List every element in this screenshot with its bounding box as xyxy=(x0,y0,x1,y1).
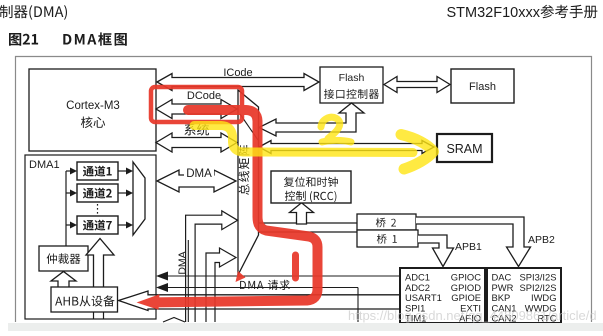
label 通道7 xyxy=(83,220,112,231)
annotation red box around DCode xyxy=(151,87,242,122)
block SRAM xyxy=(437,134,492,162)
wire Flash interface to Flash arrow xyxy=(384,77,450,93)
block channel 通道1 xyxy=(77,162,118,180)
block channel 通道7 xyxy=(77,216,118,234)
annotation yellow mark 2 xyxy=(321,117,351,142)
svg-text:Cortex-M3: Cortex-M3 xyxy=(66,100,120,112)
wire channel to mux arrow xyxy=(118,224,127,226)
block arbiter 仲裁器 xyxy=(39,246,88,271)
wire APB2 pipe and arrow xyxy=(416,217,531,267)
label 桥 1 xyxy=(377,234,397,244)
mux trapezoid xyxy=(133,162,145,235)
wire arbiter to channel arrow xyxy=(66,192,70,194)
bus matrix 总线矩阵 xyxy=(238,90,259,275)
caption 图21 xyxy=(9,33,38,46)
wire DMA request line 2 xyxy=(160,287,358,289)
svg-text:DCode: DCode xyxy=(187,90,221,102)
annotation red arrowhead at AHB slave xyxy=(137,294,160,309)
annotation yellow arrowhead at SRAM xyxy=(401,135,434,170)
block DMA1 xyxy=(25,155,156,319)
wire bus matrix to SRAM arrow xyxy=(259,141,434,154)
svg-text:STM32F10xxx: STM32F10xxx xyxy=(447,5,541,21)
wire AHB slave to mux arrow xyxy=(86,239,114,288)
wire AHB slave to arbiter arrow xyxy=(51,272,76,288)
svg-text:SRAM: SRAM xyxy=(446,142,482,156)
label DMA 请求 xyxy=(240,280,290,290)
wire DMA request line 1 xyxy=(160,275,400,277)
wire extra vertical line xyxy=(187,240,189,322)
wire APB1 pipe and arrow xyxy=(418,235,454,267)
svg-text:Flash: Flash xyxy=(469,81,496,93)
wire arrow to RCC xyxy=(290,203,314,224)
label 复位和时钟 xyxy=(284,177,338,187)
svg-text:Flash: Flash xyxy=(339,72,365,84)
svg-text:DMA: DMA xyxy=(177,251,189,274)
block RCC 复位和时钟控制 xyxy=(271,171,351,203)
header right text 参考手册 xyxy=(541,5,598,19)
svg-text:APB2: APB2 xyxy=(528,234,555,246)
wire stubs below AHB slave xyxy=(93,312,95,319)
wire arbiter to channel arrow xyxy=(66,224,70,226)
label 桥 2 xyxy=(376,218,396,228)
wire DMA master elbow arrow A into bus matrix xyxy=(186,211,238,322)
caption DMA框图 xyxy=(63,32,127,45)
wire AHB pipe to bridges xyxy=(259,222,357,224)
wire bus matrix to Flash interface elbow arrow xyxy=(259,103,364,136)
label 通道2 xyxy=(83,188,112,199)
block APB1 peripherals xyxy=(400,268,485,323)
wire DMA bus arrow xyxy=(157,170,236,192)
bottom gray bar xyxy=(8,323,603,331)
wire AHB peripherals pipe arrow into AHB slave xyxy=(119,291,401,311)
annotation yellow highlighter path to SRAM xyxy=(194,126,413,153)
wire DMA master elbow arrow B into bus matrix xyxy=(206,248,236,322)
diagram frame xyxy=(16,57,592,323)
label 接口控制器 xyxy=(324,89,379,99)
label 仲裁器 xyxy=(47,253,81,264)
block APB2 peripherals xyxy=(487,268,561,323)
block AHB slave AHB从设备 xyxy=(51,287,118,312)
block bridge 2 桥2 xyxy=(357,214,416,230)
svg-text:https://blog.csdn.net/qq_44809: https://blog.csdn.net/qq_44809861/articl… xyxy=(348,308,597,323)
label 通道1 xyxy=(83,166,112,177)
annotation red path from DCode down to AHB slave xyxy=(154,110,318,302)
block Flash interface controller xyxy=(320,67,383,103)
wire arbiter to channel arrow xyxy=(66,170,70,172)
svg-text:DMA: DMA xyxy=(186,168,212,180)
wire 系统 (system) bus arrow xyxy=(156,133,237,152)
label 核心 xyxy=(81,117,105,129)
header left text 制器(DMA) xyxy=(0,5,67,20)
label 总线矩阵 (vertical) xyxy=(239,145,250,195)
wire arbiter feed line xyxy=(65,171,67,246)
svg-text:APB1: APB1 xyxy=(455,241,482,253)
label AHB从设备 xyxy=(55,295,115,306)
label 系统 xyxy=(184,124,209,136)
label 控制 (RCC) xyxy=(285,191,337,203)
wire cut arrowhead at bottom xyxy=(163,318,185,323)
annotation red small triangle at DMA request junction xyxy=(236,271,246,282)
wire channel to mux arrow xyxy=(118,192,127,194)
dotted line between channels xyxy=(97,204,99,214)
svg-text:DMA1: DMA1 xyxy=(29,159,60,171)
annotation red mark 1 xyxy=(292,255,299,278)
wire ICode bus arrow xyxy=(157,74,319,91)
block bridge 1 桥1 xyxy=(357,230,418,247)
block channel 通道2 xyxy=(77,184,118,202)
wire DCode bus arrow xyxy=(156,100,237,119)
wire channel to mux arrow xyxy=(118,170,127,172)
block Flash xyxy=(451,69,514,103)
svg-text:ICode: ICode xyxy=(223,67,252,79)
block Cortex-M3 core xyxy=(29,69,156,151)
